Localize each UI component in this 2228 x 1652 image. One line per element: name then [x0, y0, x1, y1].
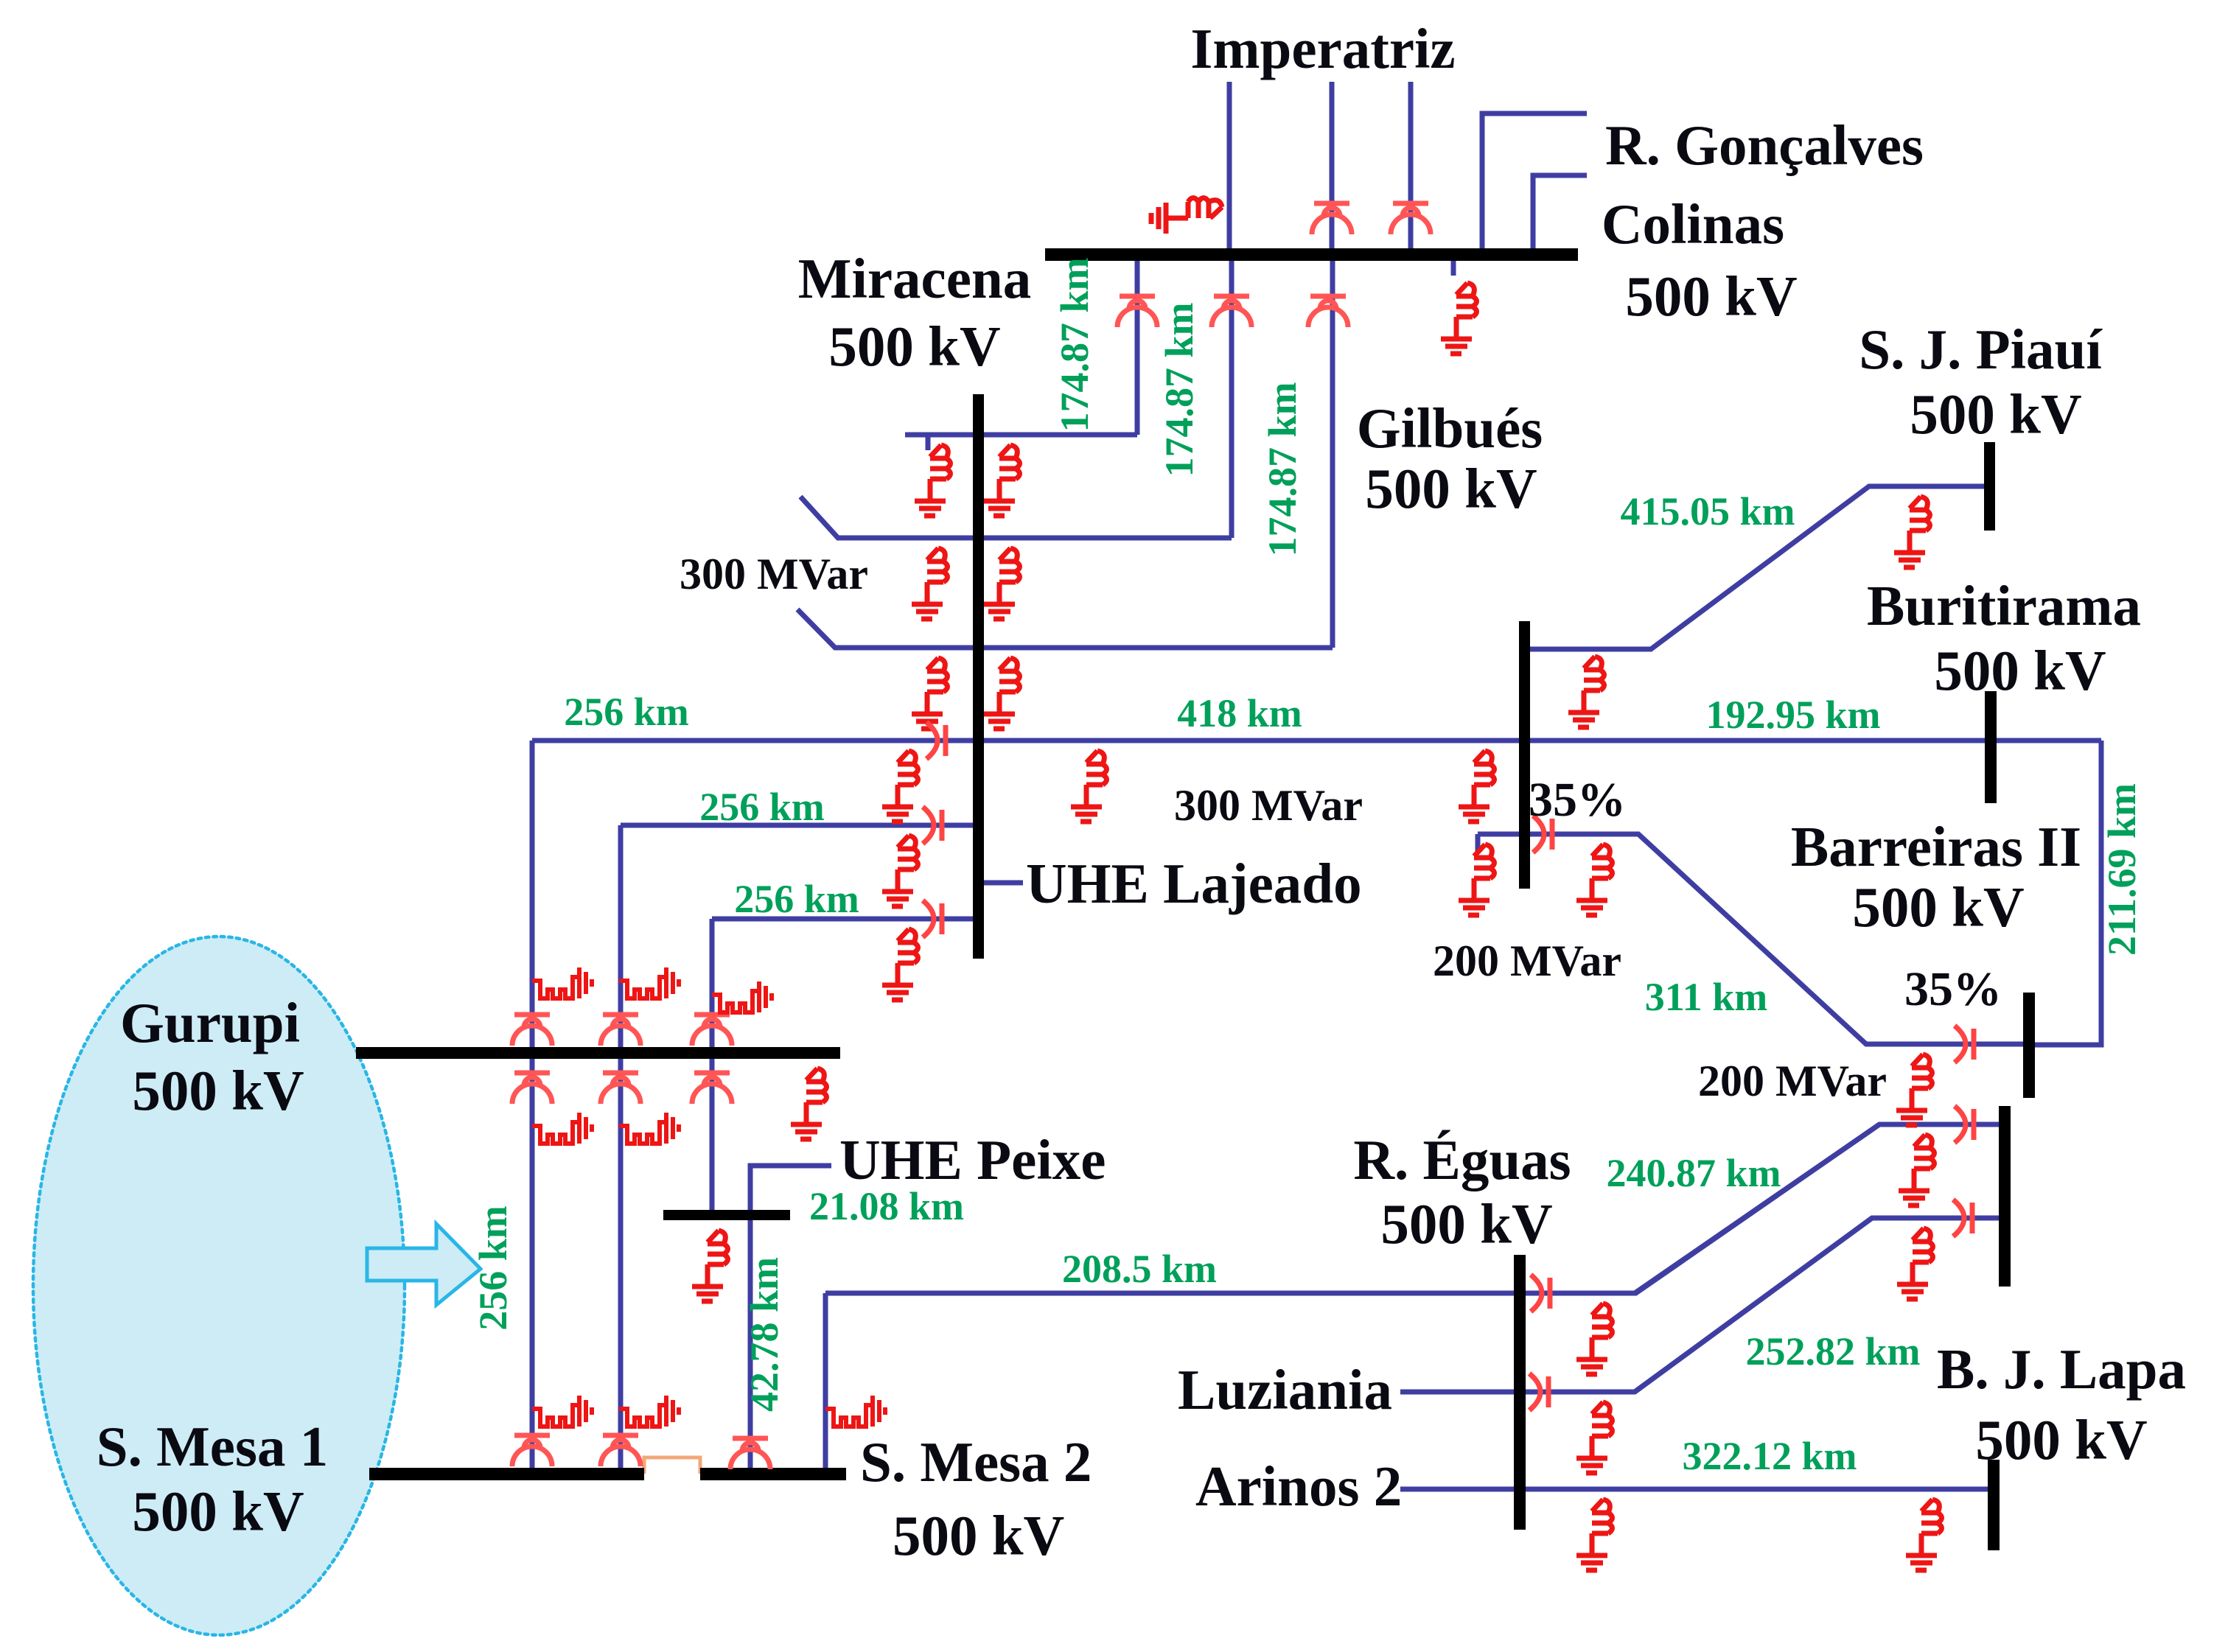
- bus S Mesa 1: [369, 1468, 644, 1480]
- svg-text:500 kV: 500 kV: [1852, 875, 2024, 939]
- svg-text:B. J. Lapa: B. J. Lapa: [1937, 1337, 2186, 1401]
- series capacitor Luziania: [1529, 1373, 1548, 1410]
- wire Imperatriz drop 1: [1227, 82, 1232, 248]
- reactor at S J Piaui: [1894, 497, 1930, 567]
- wire 240.87km line: [1635, 1124, 1999, 1294]
- svg-text:R. Éguas: R. Éguas: [1353, 1128, 1571, 1191]
- svg-text:UHE Lajeado: UHE Lajeado: [1026, 852, 1362, 915]
- wire 256km line A + 418km + 192.95km: [532, 738, 2101, 743]
- wire Gilbues line-879 horizontal with end diagonal: [797, 609, 1333, 648]
- wire Arinos 322.12km line: [1400, 1487, 1988, 1492]
- svg-text:300 MVar: 300 MVar: [1174, 781, 1363, 830]
- svg-text:Gilbués: Gilbués: [1357, 396, 1543, 460]
- capacitor above S Mesa 1 line B: [601, 1435, 640, 1466]
- svg-text:500 kV: 500 kV: [1975, 1408, 2147, 1471]
- svg-text:Miracena: Miracena: [798, 247, 1031, 310]
- wire Colinas reactor stub: [1451, 261, 1456, 276]
- wire Gurupi vertical B: [618, 825, 624, 1468]
- svg-text:Buritirama: Buritirama: [1867, 574, 2141, 637]
- bus Buritirama: [1985, 691, 1997, 803]
- wire to R. Goncalves: [1482, 113, 1587, 248]
- wire Colinas drop to line-730: [1229, 261, 1235, 538]
- capacitor above Gurupi line A: [512, 1015, 552, 1046]
- reactor 208.5km line at R Eguas: [1576, 1303, 1613, 1374]
- reactor below UHE Peixe bus: [692, 1231, 728, 1301]
- svg-text:Arinos 2: Arinos 2: [1195, 1455, 1402, 1518]
- svg-text:500 kV: 500 kV: [893, 1504, 1064, 1567]
- capacitor below Colinas line-730: [1212, 296, 1251, 327]
- wire S Mesa 2 riser: [823, 1293, 828, 1468]
- svg-text:174.87 km: 174.87 km: [1157, 302, 1201, 477]
- wire 208.5km line: [825, 1124, 1879, 1293]
- reactor at Barreiras II line: [1896, 1054, 1932, 1125]
- svg-text:500 kV: 500 kV: [1380, 1192, 1552, 1256]
- reactor line-590 right: [984, 445, 1020, 516]
- bus Miracena 500kV: [973, 394, 984, 959]
- wire Gurupi vertical A: [530, 741, 535, 1468]
- capacitor below Gurupi line B: [601, 1073, 640, 1104]
- svg-text:42.78 km: 42.78 km: [742, 1257, 786, 1412]
- capacitor below Colinas Gilbues: [1308, 296, 1348, 327]
- capacitor above S Mesa 1 line A: [512, 1435, 552, 1466]
- reactor on Gurupi bus: [791, 1068, 827, 1139]
- wire UHE Lajeado stub: [983, 881, 1023, 886]
- bus Gurupi: [356, 1047, 840, 1059]
- wire Imperatriz drop 3: [1408, 82, 1414, 248]
- svg-text:252.82 km: 252.82 km: [1745, 1329, 1920, 1373]
- wire 311km line left stub: [1478, 834, 1519, 851]
- svg-text:Barreiras II: Barreiras II: [1791, 815, 2081, 878]
- svg-text:S. Mesa 2: S. Mesa 2: [860, 1430, 1092, 1494]
- bus S J Piaui: [1984, 442, 1995, 531]
- capacitor above S Mesa 2 42.78km: [730, 1438, 770, 1469]
- wire 256km line C: [712, 917, 973, 922]
- wire 256km line B: [621, 823, 973, 828]
- series capacitor 208.5km: [1531, 1275, 1550, 1312]
- svg-text:500 kV: 500 kV: [1910, 382, 2081, 446]
- svg-text:418 km: 418 km: [1177, 691, 1302, 735]
- reactor line-730 right: [984, 548, 1020, 619]
- series capacitor 256km line A: [926, 722, 946, 759]
- reactor 311km line right: [1576, 844, 1613, 915]
- svg-text:R. Gonçalves: R. Gonçalves: [1605, 113, 1924, 177]
- reactor line-590 left: [915, 445, 951, 516]
- wire Colinas drop to line-590: [1135, 261, 1140, 435]
- svg-text:500 kV: 500 kV: [1625, 265, 1797, 328]
- bus S Mesa 2: [700, 1468, 846, 1480]
- line trap above Gurupi B: [619, 967, 679, 998]
- wire line-730 horizontal with end diagonal: [800, 497, 1232, 538]
- line trap below Gurupi A: [532, 1113, 592, 1144]
- capacitor below Gurupi line C: [692, 1073, 732, 1104]
- reactor 322.12km line at B J Lapa: [1906, 1499, 1942, 1570]
- svg-text:256 km: 256 km: [734, 877, 859, 921]
- series capacitor 252.82km: [1953, 1200, 1972, 1236]
- line trap above S Mesa 2: [825, 1396, 885, 1427]
- bus Colinas 500kV: [1045, 248, 1578, 261]
- capacitor above Colinas on line 2: [1312, 203, 1352, 234]
- svg-text:500 kV: 500 kV: [132, 1480, 304, 1543]
- wire 42.78km line: [748, 1220, 753, 1468]
- svg-text:S. J. Piauí: S. J. Piauí: [1859, 318, 2103, 381]
- svg-text:300 MVar: 300 MVar: [680, 550, 868, 598]
- svg-text:256 km: 256 km: [564, 690, 689, 734]
- arrow from ellipse: [367, 1224, 481, 1305]
- svg-text:200 MVar: 200 MVar: [1433, 937, 1621, 985]
- capacitor above Gurupi line C: [692, 1015, 732, 1046]
- reactor line-879 right: [984, 658, 1020, 729]
- reactor 418km line 300MVar right: [1459, 751, 1495, 822]
- reactor line-730 left: [912, 548, 948, 619]
- bus series-comp middle 35%: [1519, 621, 1530, 889]
- bus B J Lapa lower: [1988, 1460, 2000, 1550]
- line trap above Gurupi A: [532, 967, 592, 998]
- series capacitor 256km line B: [923, 807, 942, 844]
- bus Barreiras II: [2023, 993, 2035, 1098]
- svg-text:174.87 km: 174.87 km: [1260, 382, 1305, 556]
- line trap above S Mesa 1 B: [619, 1396, 679, 1427]
- svg-text:35%: 35%: [1904, 962, 2002, 1016]
- svg-text:208.5 km: 208.5 km: [1062, 1247, 1217, 1291]
- reactor 256km line A near Miracena: [882, 751, 918, 822]
- wire line-590 horizontal: [905, 435, 1137, 450]
- svg-text:256 km: 256 km: [471, 1205, 515, 1331]
- svg-text:200 MVar: 200 MVar: [1698, 1057, 1887, 1105]
- wire 311km line to Barreiras II: [1529, 834, 2023, 1044]
- svg-text:192.95 km: 192.95 km: [1705, 693, 1880, 737]
- svg-text:240.87 km: 240.87 km: [1606, 1151, 1781, 1195]
- svg-text:211.69 km: 211.69 km: [2100, 783, 2144, 956]
- highlight ellipse Gurupi / S Mesa 1: [33, 937, 405, 1635]
- wire middle bus to 415.05km diagonal: [1529, 486, 1984, 649]
- wire UHE Peixe label connector: [750, 1166, 831, 1210]
- series capacitor 311km line: [1533, 816, 1552, 853]
- line trap above Gurupi C: [712, 981, 772, 1012]
- svg-text:S. Mesa 1: S. Mesa 1: [97, 1415, 328, 1478]
- svg-text:21.08 km: 21.08 km: [809, 1184, 964, 1228]
- wire Luziania line: [1400, 1218, 1872, 1392]
- reactor Luziania line at R Eguas: [1576, 1402, 1613, 1473]
- svg-text:500 kV: 500 kV: [132, 1059, 304, 1122]
- reactor Arinos line at R Eguas: [1576, 1499, 1613, 1570]
- series capacitor Barreiras II: [1955, 1026, 1974, 1063]
- series capacitor 240.87km: [1955, 1106, 1974, 1143]
- series capacitor 256km line C: [923, 900, 942, 937]
- reactor 256km line C near Miracena: [882, 929, 918, 1000]
- svg-text:322.12 km: 322.12 km: [1682, 1434, 1857, 1478]
- line trap below Gurupi B: [619, 1113, 679, 1144]
- svg-text:Imperatriz: Imperatriz: [1190, 17, 1455, 80]
- svg-text:500 kV: 500 kV: [1934, 639, 2106, 702]
- wire 211.69km down-leg: [2035, 741, 2101, 1045]
- bus R Eguas: [1514, 1255, 1526, 1530]
- bus UHE Peixe: [663, 1210, 790, 1220]
- reactor on Colinas bus: [1441, 283, 1477, 354]
- capacitor above Colinas on line 3: [1391, 203, 1431, 234]
- svg-text:500 kV: 500 kV: [828, 315, 1000, 378]
- line trap above S Mesa 1 A: [532, 1396, 592, 1427]
- svg-text:35%: 35%: [1529, 773, 1626, 827]
- reactor 252.82km line at B J Lapa: [1897, 1228, 1933, 1299]
- reactor line-879 left: [912, 658, 948, 729]
- capacitor below Colinas line-590: [1117, 296, 1157, 327]
- horizontal reactor at Imperatriz: [1151, 198, 1222, 234]
- svg-text:Colinas: Colinas: [1602, 192, 1784, 256]
- reactor 311km line left: [1459, 844, 1495, 915]
- svg-text:500 kV: 500 kV: [1365, 457, 1537, 520]
- svg-text:415.05 km: 415.05 km: [1620, 489, 1795, 533]
- wire 252.82km line: [1635, 1218, 1999, 1392]
- svg-text:256 km: 256 km: [699, 785, 825, 829]
- bus B J Lapa upper: [1999, 1106, 2011, 1287]
- wire to Colinas label: [1533, 175, 1587, 248]
- reactor 256km line B near Miracena: [882, 836, 918, 906]
- reactor 240.87km line at B J Lapa: [1899, 1135, 1935, 1205]
- svg-text:UHE Peixe: UHE Peixe: [839, 1128, 1106, 1191]
- S Mesa bus tie bump: [644, 1457, 700, 1474]
- capacitor below Gurupi line A: [512, 1073, 552, 1104]
- svg-text:Gurupi: Gurupi: [120, 991, 300, 1054]
- wire Imperatriz drop 2: [1330, 82, 1335, 248]
- capacitor above Gurupi line B: [601, 1015, 640, 1046]
- reactor 418km line 300MVar left: [1071, 751, 1107, 822]
- wire Gurupi vertical C to UHE Peixe: [710, 919, 715, 1210]
- reactor 415km line at middle bus: [1568, 657, 1604, 727]
- svg-text:311 km: 311 km: [1645, 975, 1768, 1019]
- wire Colinas drop to Gilbues line-879: [1330, 261, 1335, 648]
- svg-text:174.87 km: 174.87 km: [1052, 257, 1097, 432]
- svg-text:Luziania: Luziania: [1178, 1358, 1392, 1421]
